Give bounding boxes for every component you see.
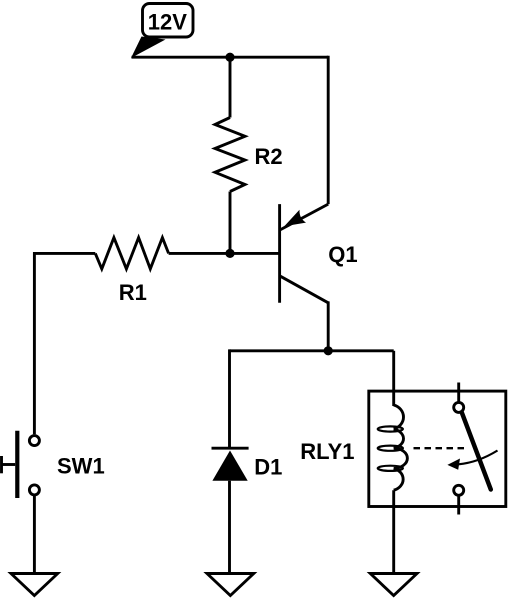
junction: rail / R2 top	[225, 53, 234, 62]
wire: relay coil to ground	[392, 490, 395, 573]
junction: base node	[225, 249, 234, 258]
relay RLY1 actuation arrow	[447, 451, 497, 470]
svg-text:12V: 12V	[148, 10, 187, 35]
wire: collector node horizontal	[230, 349, 394, 352]
svg-text:D1: D1	[254, 454, 282, 479]
wire: node down to relay coil	[392, 351, 395, 406]
switch SW1 (pushbutton)	[1, 431, 39, 498]
svg-text:RLY1: RLY1	[300, 439, 354, 464]
ground (RLY1)	[370, 574, 417, 596]
diode D1	[212, 448, 249, 481]
wire: left vertical (base net to SW1)	[33, 252, 36, 434]
wire: rail to Q1 emitter vertical	[327, 56, 330, 204]
ground (D1)	[207, 574, 254, 596]
relay RLY1 contact stub bottom	[457, 496, 460, 514]
relay RLY1 switch arm	[462, 413, 491, 490]
resistor R1	[95, 238, 168, 269]
relay RLY1 contact stub top	[457, 383, 460, 402]
supply flag 12V	[131, 4, 193, 59]
ground (SW1)	[11, 574, 58, 596]
wire: Q1 collector vertical	[327, 301, 330, 350]
svg-text:R2: R2	[255, 144, 283, 169]
wire: +12V rail horizontal	[132, 56, 329, 59]
relay RLY1 coil	[378, 405, 408, 490]
relay RLY1 dashed actuation line	[414, 447, 467, 449]
relay RLY1 contact circle top	[454, 402, 464, 412]
relay RLY1 box	[369, 391, 506, 506]
junction: collector node	[324, 346, 333, 355]
svg-text:R1: R1	[119, 280, 147, 305]
transistor Q1 (PNP)	[280, 204, 329, 303]
wire: SW1 to ground	[33, 496, 36, 574]
wire: node down to D1	[228, 349, 231, 448]
wire: D1 to ground	[228, 481, 231, 574]
wire: R1 to Q1 base	[169, 252, 280, 255]
svg-text:SW1: SW1	[57, 454, 105, 479]
svg-text:Q1: Q1	[328, 242, 357, 267]
resistor R2	[215, 57, 245, 253]
relay RLY1 contact circle bottom	[454, 485, 464, 495]
wire: base net left segment	[33, 252, 95, 255]
